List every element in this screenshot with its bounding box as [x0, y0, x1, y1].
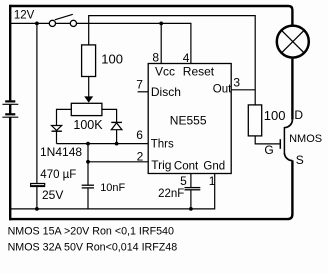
svg-text:22nF: 22nF	[158, 188, 184, 200]
battery B1 plates	[2, 101, 18, 117]
IC U1 NE555	[148, 64, 231, 174]
wire: switch feed rail y=23.4 to reset pin corner	[10, 23, 191, 63]
svg-text:NMOS 15A >20V Ron <0,1 IRF540: NMOS 15A >20V Ron <0,1 IRF540	[8, 226, 174, 238]
svg-text:470 µF: 470 µF	[40, 169, 76, 181]
wire: pin 3 output	[231, 89, 255, 91]
svg-text:100: 100	[101, 51, 123, 66]
node: C1 ground junction	[35, 207, 39, 211]
svg-text:8: 8	[152, 50, 159, 64]
lamp LA1	[277, 26, 309, 58]
svg-text:6: 6	[136, 128, 143, 142]
svg-text:4: 4	[183, 51, 190, 65]
svg-text:Out: Out	[213, 83, 232, 95]
svg-text:100K: 100K	[73, 118, 103, 132]
wire: lamp to drain (thick)	[291, 59, 293, 120]
svg-text:7: 7	[136, 78, 143, 92]
node: timing node at cap branch	[86, 142, 90, 146]
potentiometer P1 100K body	[71, 103, 102, 115]
resistor R1 100 (wiper feed)	[82, 45, 96, 77]
battery B1 middle link	[9, 104, 11, 114]
svg-text:100: 100	[264, 108, 286, 123]
wire: pot left end to D1	[57, 109, 72, 125]
svg-text:3: 3	[233, 75, 240, 89]
svg-text:Gnd: Gnd	[203, 160, 225, 172]
svg-text:Vcc: Vcc	[155, 64, 175, 78]
transistor Q1 drain arc	[284, 120, 292, 128]
wire: ground return rail (thick bottom)	[9, 160, 292, 219]
svg-text:D: D	[294, 108, 303, 122]
wire: top supply rail (thick frame, battery+ to lamp)	[10, 6, 292, 25]
wire: left border (battery branch) upper segment	[9, 5, 11, 101]
node: D2 junction	[115, 142, 119, 146]
wire: pin 5 to C3	[190, 174, 192, 188]
wire: D1 to threshold node	[56, 131, 58, 143]
wire: supply to C1	[36, 23, 38, 183]
svg-text:Thrs: Thrs	[151, 138, 174, 150]
transistor Q1 source arc	[284, 153, 292, 161]
svg-text:S: S	[296, 153, 304, 167]
svg-text:25V: 25V	[42, 188, 63, 202]
switch S1	[49, 14, 76, 26]
wire: R2 to gate	[255, 136, 279, 144]
wire: C1 to ground rail	[36, 186, 38, 209]
wiper arrow	[84, 96, 93, 102]
svg-text:Disch: Disch	[151, 85, 181, 99]
node: trigger branch junction	[86, 160, 90, 164]
svg-text:NE555: NE555	[170, 114, 207, 128]
wire: R1 to wiper arrow	[88, 77, 90, 101]
svg-text:1N4148: 1N4148	[40, 145, 82, 159]
transistor Q1 channel bar	[283, 127, 285, 153]
capacitor C2 10nF	[82, 185, 94, 188]
svg-text:G: G	[264, 143, 273, 157]
svg-text:5: 5	[180, 174, 187, 188]
svg-text:1: 1	[209, 174, 216, 188]
resistor R2 100 (gate)	[248, 105, 261, 136]
wire: D2 to threshold node	[116, 130, 118, 144]
svg-text:NMOS: NMOS	[289, 133, 322, 145]
wire: C2 to ground rail	[87, 188, 89, 209]
wire: pot right end to D2	[102, 109, 117, 122]
svg-text:12V: 12V	[14, 10, 35, 22]
wire: trigger line to pin 2	[88, 161, 148, 163]
pin 7 stub	[138, 91, 149, 93]
svg-text:10nF: 10nF	[100, 182, 125, 194]
diode D1 1N4148 (anode up)	[52, 126, 62, 132]
capacitor C3 22nF	[185, 188, 201, 190]
wire: signal ground rail to pin 1	[10, 174, 215, 209]
capacitor C1 470uF electrolytic	[30, 184, 45, 187]
wire: threshold node line to pin 6	[57, 143, 149, 145]
svg-text:Trig: Trig	[151, 158, 171, 172]
wire: pin 8 drop	[160, 23, 162, 63]
svg-text:NMOS 32A 50V Ron<0,014 IRFZ48: NMOS 32A 50V Ron<0,014 IRFZ48	[8, 241, 178, 253]
node: C3 ground junction	[189, 207, 193, 211]
node: battery branch junction	[35, 22, 39, 26]
wire: output feedback line (pin3 to wiper resistor)	[89, 16, 256, 105]
wire: left border lower segment	[9, 117, 11, 220]
wire: C3 to ground rail	[190, 190, 192, 209]
wire: timing node down to C2	[87, 144, 89, 185]
svg-text:2: 2	[137, 149, 144, 163]
transistor Q1 NMOS gate bar	[279, 139, 281, 149]
diode D2 (cathode up)	[111, 122, 122, 129]
svg-text:Cont: Cont	[174, 160, 199, 172]
node: Vcc pin 8 junction	[159, 22, 163, 26]
svg-text:Reset: Reset	[183, 64, 215, 78]
